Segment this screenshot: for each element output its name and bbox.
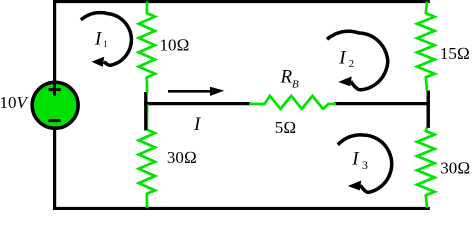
svg-text:10Ω: 10Ω (160, 36, 190, 55)
svg-text:R: R (280, 67, 293, 88)
svg-text:3: 3 (362, 158, 368, 172)
svg-text:15Ω: 15Ω (440, 44, 470, 63)
svg-text:I: I (351, 149, 360, 170)
svg-text:30Ω: 30Ω (167, 148, 197, 167)
svg-text:I: I (94, 28, 103, 49)
svg-text:2: 2 (349, 58, 354, 70)
svg-text:5Ω: 5Ω (275, 118, 297, 137)
svg-text:I: I (338, 47, 347, 68)
svg-text:10V: 10V (0, 93, 30, 112)
svg-text:B: B (292, 78, 299, 90)
svg-text:I: I (193, 114, 202, 135)
svg-text:1: 1 (103, 39, 108, 49)
svg-text:30Ω: 30Ω (440, 159, 470, 178)
